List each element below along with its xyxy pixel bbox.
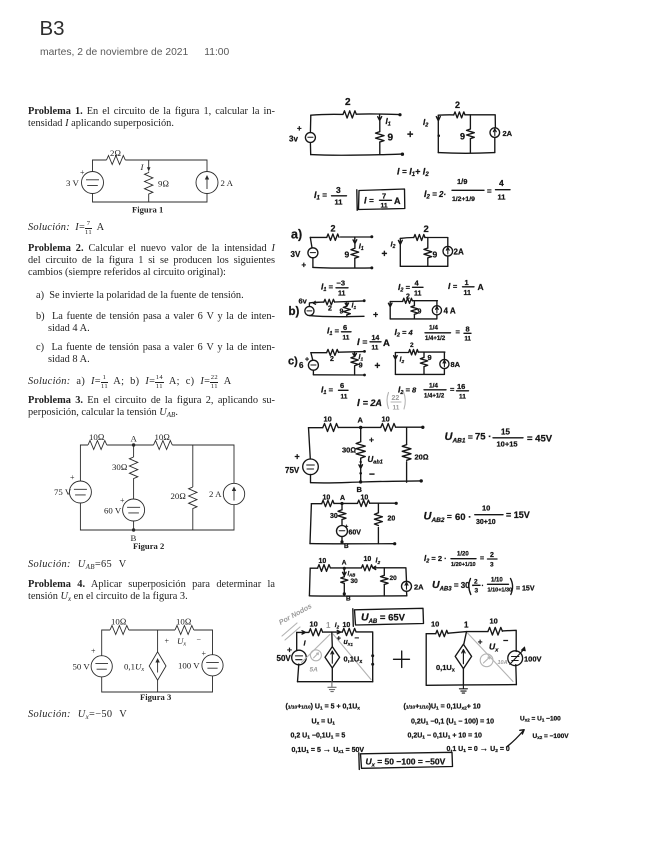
current source hw2c-r 8A — [440, 359, 449, 368]
svg-text:3: 3 — [490, 562, 494, 569]
svg-text:2: 2 — [455, 100, 460, 110]
svg-text:10: 10 — [364, 556, 372, 563]
gray source P hw4a — [310, 650, 321, 661]
svg-text:7: 7 — [382, 192, 386, 201]
svg-text:11: 11 — [341, 394, 348, 401]
node A dot hw3b — [340, 502, 343, 505]
wire hw3c top-mid — [331, 567, 362, 569]
resistor hw1a 9ohm — [376, 132, 385, 142]
svg-text:I2: I2 — [376, 558, 381, 566]
gray source hw4b — [480, 654, 493, 667]
wire hw1b bottom — [438, 152, 495, 155]
box hw1 I=7/11 A — [357, 189, 405, 210]
wire hw4a diamond-bottom — [331, 668, 333, 682]
wire: fig3 bottom — [102, 676, 213, 692]
svg-text:1: 1 — [326, 621, 331, 630]
svg-text:75 V: 75 V — [54, 487, 72, 497]
resistor hw2b-l 9ohm — [343, 306, 350, 315]
svg-text:Ux2 = −100V: Ux2 = −100V — [533, 733, 570, 740]
svg-text:9: 9 — [433, 250, 438, 260]
Solucion 2 — [28, 375, 232, 390]
svg-text:UAB = 65V: UAB = 65V — [361, 612, 406, 626]
svg-text:2: 2 — [424, 224, 429, 235]
resistor hw2c-r 2ohm — [409, 350, 419, 355]
arrow cross hw4b 100V — [510, 651, 523, 665]
wire hw1a middle branch with arrow I1 — [378, 115, 382, 132]
wire hw2a-l left — [310, 237, 312, 247]
svg-text:·: · — [482, 583, 484, 590]
svg-text:4: 4 — [415, 279, 420, 288]
svg-text:2: 2 — [474, 579, 478, 586]
resistor hw3c 10ohm right — [362, 565, 373, 571]
svg-text:A: A — [478, 282, 484, 292]
dependent source hw4a 0,1Ux — [325, 647, 340, 668]
svg-text:22: 22 — [392, 395, 400, 402]
svg-text:1/20+1/10: 1/20+1/10 — [451, 562, 476, 568]
svg-text:3v: 3v — [289, 135, 298, 144]
svg-text:10Ω: 10Ω — [155, 432, 171, 442]
svg-text:0,2U1 − 0,1U1 + 10 = 10: 0,2U1 − 0,1U1 + 10 = 10 — [408, 733, 483, 741]
svg-text:30: 30 — [351, 578, 359, 585]
svg-text:I = I1+ I2: I = I1+ I2 — [397, 167, 429, 179]
resistor hw4b 10ohm right — [488, 627, 502, 635]
wire: branch A down fig2 — [133, 445, 135, 457]
resistor hw1b 9ohm — [467, 129, 475, 139]
node dot hw1a top-right — [398, 113, 401, 116]
svg-text:11: 11 — [464, 290, 472, 297]
svg-text:20Ω: 20Ω — [171, 491, 187, 501]
svg-text:1/10+1/30: 1/10+1/30 — [488, 588, 513, 594]
resistor 2ohm fig1 — [107, 156, 126, 165]
wire hw4b top-mid — [448, 632, 488, 634]
svg-text:2A: 2A — [454, 248, 464, 257]
svg-text:(1/10+1/10) U1 = 5 + 0,1Ux: (1/10+1/10) U1 = 5 + 0,1Ux — [286, 704, 361, 712]
current source 2A fig2 — [223, 483, 244, 504]
svg-text:B: B — [357, 485, 363, 494]
wire hw2a-l middle arrow I1 — [353, 237, 357, 248]
svg-text:9: 9 — [388, 133, 394, 144]
svg-text:A: A — [131, 434, 138, 444]
svg-text:=: = — [487, 187, 492, 196]
svg-text:ux1: ux1 — [344, 639, 354, 647]
wire hw4a left-bottom — [298, 664, 299, 682]
svg-text:1/9: 1/9 — [457, 177, 467, 186]
wire hw1b source-bottom — [494, 137, 496, 152]
svg-text:IAB: IAB — [348, 571, 356, 577]
svg-text:0,2 U1 −0,1U1 = 5: 0,2 U1 −0,1U1 = 5 — [291, 733, 346, 741]
wire hw2c-l middle-bottom — [354, 366, 356, 375]
resistor hw4b 10ohm left — [436, 630, 448, 636]
svg-text:I1: I1 — [352, 303, 357, 311]
svg-text:I2: I2 — [423, 118, 428, 129]
current source hw2a-r 2A — [443, 246, 453, 256]
wire: fig1 bottom — [93, 194, 208, 203]
wire hw2a-r top-right — [425, 237, 448, 239]
wire hw2c-r bottom — [395, 373, 444, 375]
voltage source 100V fig3 — [202, 655, 223, 676]
svg-text:11: 11 — [372, 345, 379, 352]
svg-text:6: 6 — [343, 323, 347, 332]
svg-text:11: 11 — [381, 203, 388, 210]
box hw UAB=65V — [353, 608, 424, 626]
wire hw3a left — [309, 428, 311, 459]
wire: fig2 bottom — [80, 503, 234, 530]
svg-text:2: 2 — [410, 342, 414, 349]
svg-text:10: 10 — [490, 617, 498, 626]
svg-text:A: A — [394, 196, 401, 206]
svg-text:20: 20 — [390, 575, 398, 582]
Problema 4 — [28, 579, 275, 604]
resistor hw3a 10ohm left — [323, 424, 338, 432]
svg-text:a): a) — [291, 228, 302, 242]
svg-text:A: A — [342, 560, 347, 567]
node dot hw2a-l br — [370, 266, 373, 269]
Problema 1 — [28, 106, 275, 131]
node B dot hw3b — [340, 540, 343, 543]
svg-text:Figura 1: Figura 1 — [132, 205, 163, 215]
svg-text:+: + — [478, 638, 483, 647]
voltage source 60V fig2 — [123, 499, 145, 521]
wire hw3c source bottom — [406, 591, 408, 596]
wire: 20ohm branch top fig2 — [192, 445, 194, 487]
wire hw3b branch A top — [341, 504, 343, 510]
Problema 3 — [28, 395, 275, 420]
svg-text:1/2+1/9: 1/2+1/9 — [452, 196, 475, 203]
Solucion 4 — [28, 709, 127, 720]
wire hw3a branch 20ohm top — [406, 427, 408, 444]
wire hw3c branch A arrow IAB — [343, 568, 347, 576]
wire hw2b-r source top/bottom — [436, 301, 438, 319]
svg-text:1/4+1/2: 1/4+1/2 — [424, 393, 445, 399]
svg-text:2: 2 — [490, 552, 494, 559]
svg-text:Ux: Ux — [177, 636, 186, 648]
svg-text:10: 10 — [482, 504, 490, 513]
wire hw3a bottom — [311, 481, 420, 483]
svg-text:I2 =: I2 = — [398, 282, 411, 294]
svg-text:I1 =: I1 = — [327, 326, 340, 338]
svg-text:Figura 2: Figura 2 — [133, 541, 164, 551]
svg-text:=: = — [450, 385, 455, 394]
svg-text:4: 4 — [499, 178, 504, 188]
svg-text:−: − — [369, 470, 375, 481]
svg-text:+: + — [407, 129, 413, 141]
svg-text:11: 11 — [335, 198, 343, 207]
svg-text:2: 2 — [406, 294, 410, 301]
svg-text:9: 9 — [345, 250, 350, 260]
svg-text:9: 9 — [340, 309, 344, 316]
wire hw1a left-bottom — [309, 143, 311, 155]
voltage source hw2b-l 6V — [305, 306, 314, 315]
svg-text:30Ω: 30Ω — [342, 446, 356, 455]
wire hw3c branch 20 bottom — [383, 584, 385, 596]
wire hw2a-r source top/bottom — [447, 238, 449, 267]
wire hw3c right down to source — [405, 568, 408, 582]
voltage source 50V fig3 — [91, 656, 112, 677]
svg-text:1/4+1/2: 1/4+1/2 — [425, 336, 446, 342]
svg-text:6: 6 — [299, 361, 304, 370]
voltage source hw4b 100V — [508, 651, 523, 666]
wire hw4b bottom — [426, 684, 516, 687]
wire hw2c-l left-top — [311, 353, 313, 361]
svg-text:10Ω: 10Ω — [111, 617, 127, 627]
wire: fig3 middle branch bottom — [157, 680, 159, 692]
node dot hw2a-l tr — [370, 235, 373, 238]
svg-text:30+10: 30+10 — [476, 519, 496, 526]
resistor hw2c-l 9ohm — [351, 357, 358, 366]
svg-text:c): c) — [288, 356, 298, 368]
svg-text:0,1Ux: 0,1Ux — [124, 662, 144, 674]
svg-text:60 ·: 60 · — [455, 512, 471, 523]
resistor hw2b-l 2ohm — [324, 299, 335, 305]
wire: fig3 top-right — [194, 630, 213, 655]
svg-text:2 A: 2 A — [209, 489, 222, 499]
svg-text:+: + — [369, 435, 374, 445]
wire hw3b top-left — [311, 503, 321, 505]
wire hw3a branch 20ohm bottom — [406, 462, 408, 482]
svg-text:10: 10 — [319, 558, 327, 565]
voltage source hw4a 50V — [292, 650, 307, 665]
resistor hw3b 10ohm right — [358, 500, 370, 506]
svg-text:2A: 2A — [414, 583, 424, 592]
svg-text:1/10: 1/10 — [491, 578, 503, 584]
wire hw2b-r top-left — [390, 301, 403, 303]
wire hw3c branch 20 top — [383, 568, 385, 575]
wire hw4a top-right — [357, 632, 373, 682]
svg-text:1/4: 1/4 — [429, 325, 438, 332]
svg-text:14: 14 — [372, 335, 380, 342]
svg-text:0,2U1 −0,1 (U1 − 100) = 10: 0,2U1 −0,1 (U1 − 100) = 10 — [411, 719, 494, 727]
svg-text:3 V: 3 V — [66, 178, 79, 188]
resistor 10ohm fig2 left — [88, 441, 107, 450]
wire hw2a-l top — [310, 236, 327, 238]
svg-text:9: 9 — [428, 353, 432, 362]
wire hw1b top-right — [465, 115, 495, 128]
current source hw3c 2A — [402, 581, 412, 591]
voltage source hw1a 3V — [305, 133, 315, 143]
svg-text:I1 =: I1 = — [321, 385, 334, 397]
wire hw3b branch to source — [341, 520, 343, 526]
svg-text:UAB3 = 30 ·: UAB3 = 30 · — [432, 579, 475, 593]
wire hw4a left — [296, 632, 298, 650]
svg-text:100V: 100V — [524, 655, 542, 664]
wire hw4b top-right — [502, 630, 516, 651]
svg-text:I: I — [304, 639, 307, 648]
svg-text:I2 = 8: I2 = 8 — [398, 385, 417, 397]
svg-text:2: 2 — [330, 356, 334, 363]
svg-text:9: 9 — [460, 132, 465, 142]
svg-text:60 V: 60 V — [104, 506, 122, 516]
big plus between hw4 — [394, 651, 410, 668]
wire hw3b source to B — [341, 537, 343, 544]
wire: fig2 top-mid — [107, 444, 154, 446]
Solucion 1 — [28, 221, 104, 236]
svg-text:Por Nodos: Por Nodos — [277, 601, 313, 626]
wire hw1b left with arrow I2 — [436, 115, 440, 152]
svg-text:+: + — [80, 168, 85, 177]
resistor hw3b 30ohm — [338, 510, 346, 520]
wire hw2c-r middle top — [423, 352, 425, 357]
wire hw2a-r bottom — [400, 265, 448, 267]
svg-text:−3: −3 — [337, 279, 346, 288]
node B dot hw3a — [359, 480, 362, 483]
current source hw2b-r 4A — [432, 306, 441, 315]
wire: 60V to B fig2 — [133, 521, 135, 530]
node A dot hw3a — [359, 426, 362, 429]
svg-text:Uab1: Uab1 — [368, 455, 383, 466]
resistor hw3a 10ohm right — [381, 424, 396, 432]
svg-text:0,1U1 = 5 → Ux1 = 50V: 0,1U1 = 5 → Ux1 = 50V — [292, 744, 365, 755]
ground hw4b — [459, 685, 467, 693]
wire hw3b top-right — [370, 502, 396, 504]
svg-text:I = 2A: I = 2A — [357, 398, 382, 409]
ground hw4a — [328, 682, 336, 692]
wire hw2b-l bottom — [309, 316, 364, 317]
svg-text:I: I — [140, 162, 145, 172]
svg-text:+: + — [337, 636, 341, 643]
wire hw2a-r middle top — [427, 238, 429, 249]
svg-text:= 15V: = 15V — [506, 510, 530, 520]
wire hw2c-r top-right — [418, 351, 445, 353]
svg-text:+: + — [70, 473, 75, 482]
node B dot hw3c — [343, 592, 346, 595]
resistor hw2a-r 2ohm — [414, 235, 425, 241]
wire: fig2 top-right — [172, 445, 234, 483]
wire hw2a-l left-bottom — [312, 258, 314, 268]
svg-text:9Ω: 9Ω — [158, 179, 169, 189]
svg-text:16: 16 — [457, 382, 465, 391]
wire hw1a middle-bottom — [379, 142, 381, 155]
svg-text:100 V: 100 V — [178, 661, 200, 671]
wire hw3b branch 20 top — [377, 503, 379, 513]
wire hw1a bottom — [311, 154, 401, 155]
svg-text:+: + — [120, 496, 125, 505]
wire hw4a top-left with arrow I — [297, 631, 309, 634]
arrow hw4 right — [507, 730, 525, 747]
svg-text:8A: 8A — [451, 360, 461, 369]
svg-text:I2 = 4: I2 = 4 — [395, 327, 414, 339]
wire: fig2 top-left — [80, 445, 88, 481]
svg-text:UAB2 =: UAB2 = — [424, 511, 452, 525]
box hw4 Ux result — [359, 752, 453, 769]
wire hw1b top-left — [438, 114, 454, 116]
svg-text:11: 11 — [414, 291, 422, 298]
resistor hw3b 10ohm left — [322, 500, 334, 506]
svg-text:6v: 6v — [299, 297, 308, 306]
svg-text:9: 9 — [418, 309, 422, 316]
svg-text:2: 2 — [328, 306, 332, 313]
svg-text:10A: 10A — [498, 660, 508, 666]
svg-text:2 A: 2 A — [221, 178, 234, 188]
node A dot hw3c — [343, 567, 346, 570]
svg-text:9: 9 — [359, 361, 363, 370]
wire hw2a-l bottom — [313, 266, 372, 269]
svg-text:5A: 5A — [310, 667, 319, 674]
wire hw2b-r top-right — [412, 300, 437, 302]
svg-text:I1: I1 — [386, 117, 391, 128]
svg-text:I2 = 2 ·: I2 = 2 · — [424, 554, 447, 565]
svg-text:Figura 3: Figura 3 — [140, 692, 171, 702]
wire hw1b middle top — [469, 115, 471, 129]
wire hw3c left — [308, 568, 311, 596]
wire hw3a top-left — [309, 427, 323, 429]
wire hw2a-r top-left — [400, 237, 414, 240]
svg-text:−: − — [197, 636, 202, 645]
wire hw2b-r middle bottom — [413, 314, 415, 318]
wire hw2c-r middle bottom — [423, 367, 425, 374]
voltage source hw2a-l 3V — [308, 248, 318, 258]
svg-text:75V: 75V — [285, 466, 300, 475]
resistor hw4a 10ohm — [309, 629, 323, 636]
node dot hw2b-l tr — [363, 299, 366, 302]
svg-text:2Ω: 2Ω — [110, 148, 121, 158]
svg-text:I1 =: I1 = — [321, 282, 334, 294]
current source 2A fig1 — [196, 172, 218, 194]
wire hw1a top-right — [356, 113, 399, 116]
Problema 2 — [28, 243, 275, 280]
wire hw2a-r left arrow I2 — [398, 238, 402, 266]
svg-text:3V: 3V — [291, 250, 301, 259]
wire hw3c branch A bottom — [343, 583, 345, 595]
wire hw4a bottom — [298, 681, 373, 683]
svg-text:+: + — [202, 649, 207, 658]
wire hw3a top-mid — [338, 426, 360, 428]
wire hw3c top-left — [310, 567, 317, 569]
svg-text:(1/10+1/10)U1 = 0,1Ux2+ 10: (1/10+1/10)U1 = 0,1Ux2+ 10 — [404, 704, 481, 712]
wire hw3c bottom — [309, 595, 406, 597]
svg-text:10Ω: 10Ω — [176, 617, 192, 627]
wire hw4a node1 to diamond — [331, 632, 334, 647]
node dot hw2c-l br — [363, 374, 366, 377]
svg-text:1/20: 1/20 — [457, 552, 469, 558]
node dot hw1a bottom-right — [401, 153, 404, 156]
svg-text:30: 30 — [330, 513, 338, 520]
svg-text:0,1Ux: 0,1Ux — [344, 655, 363, 666]
svg-text:20Ω: 20Ω — [415, 453, 429, 462]
voltage source hw3a 75V — [303, 459, 319, 475]
wire hw2c-l middle arrow I1 — [353, 352, 357, 357]
node dot hw3b br — [393, 542, 396, 545]
svg-text:B: B — [344, 543, 349, 550]
svg-text:b): b) — [289, 306, 300, 318]
wire: fig1 top-right — [125, 160, 207, 172]
resistor hw1a 2ohm — [343, 111, 356, 118]
node dot hw3a tr — [421, 426, 424, 429]
svg-text:11: 11 — [498, 193, 506, 202]
svg-text:10: 10 — [431, 620, 439, 629]
current arrow I fig1 — [147, 167, 151, 171]
svg-text:I2: I2 — [391, 240, 396, 251]
current source hw1b 2A — [490, 128, 500, 138]
wire hw2b-l top-right — [335, 301, 364, 302]
node dot hw3a br — [420, 479, 423, 482]
wire hw2c-r top-left — [395, 352, 408, 354]
resistor 10ohm fig3 left — [110, 626, 129, 635]
svg-text:+: + — [295, 452, 300, 462]
resistor hw2a-r 9ohm — [424, 248, 432, 258]
wire hw4b left — [425, 634, 427, 686]
wire hw2c-l left-bottom — [312, 370, 314, 375]
resistor 30ohm fig2 — [129, 457, 137, 499]
svg-text:I1: I1 — [359, 242, 364, 253]
resistor 9ohm fig1 — [145, 172, 153, 203]
dot lower branch hw3a — [359, 472, 362, 475]
wire hw2b-r bottom — [390, 318, 437, 320]
wire: fig3 top-left — [102, 630, 110, 656]
dot mid branch hw3a — [360, 461, 362, 463]
svg-text:+: + — [373, 310, 378, 320]
wire hw2b-r middle top — [413, 301, 415, 306]
svg-text:= 15V: = 15V — [516, 586, 535, 593]
